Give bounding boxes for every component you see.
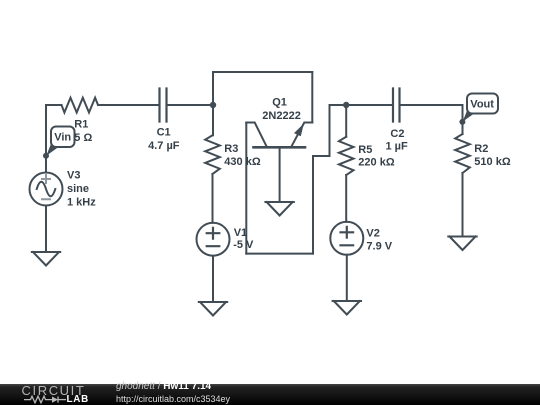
wire R2 top lead [462,105,464,134]
svg-text:V1: V1 [234,227,247,239]
wire C2 to R2 [400,104,463,106]
wire R1 to C1 [98,104,160,106]
ground below R2 [448,237,476,251]
svg-text:R1: R1 [74,119,88,131]
wire V1 to ground [212,256,214,302]
svg-text:430 kΩ: 430 kΩ [224,156,261,168]
voltage source V3 [30,173,63,206]
svg-text:-5 V: -5 V [233,239,254,251]
svg-text:C1: C1 [157,127,171,139]
capacitor C2 [393,89,400,122]
wire collector down left side of box [245,123,247,254]
svg-text:R5: R5 [358,144,372,156]
svg-text:1 µF: 1 µF [386,140,409,152]
node dot C (R5/C2 junction) [343,102,349,108]
resistor R5 [339,137,354,175]
node Vout flag [459,94,498,125]
wire C1 to node B [167,104,214,106]
svg-text:R3: R3 [224,143,238,155]
ground below V1 [199,302,227,316]
wire R5 drop [345,105,347,137]
wire R2 to ground [462,173,464,237]
svg-text:5 Ω: 5 Ω [74,132,92,144]
node dot B (C1/R3 junction) [210,102,216,108]
wire V2 to ground [346,255,348,301]
wire right side of box up [313,105,330,254]
ground at base of Q1 [265,202,293,216]
voltage source V1 [197,223,230,256]
svg-text:4.7 µF: 4.7 µF [148,140,180,152]
resistor R3 [205,135,220,174]
ground below V2 [333,301,361,315]
wire R5 to V2 [345,175,347,222]
wire left vertical from R1 to V3 [45,105,47,173]
wire R1 left lead [46,104,62,106]
sine symbol of V3 [37,182,56,197]
node Vin flag [43,127,75,159]
footer bar [0,384,540,405]
resistor R2 [455,134,470,173]
svg-text:Vin: Vin [54,132,71,144]
svg-text:220 kΩ: 220 kΩ [358,156,395,168]
svg-text:V2: V2 [366,228,379,240]
svg-text:V3: V3 [67,170,80,182]
svg-text:510 kΩ: 510 kΩ [474,156,511,168]
plus/minus of V3 [42,175,50,199]
svg-text:Vout: Vout [470,98,494,110]
svg-text:C2: C2 [390,128,404,140]
wire node B vertical to R3 [212,72,214,135]
wire base to ground [279,147,281,202]
wire right vertical to emitter [311,72,313,123]
logo resistor-diode squiggle [24,396,66,403]
svg-text:R2: R2 [474,143,488,155]
credits [116,382,211,392]
wire V3 to ground [45,206,47,253]
wire node C horizontal to C2 [330,104,394,106]
svg-text:sine: sine [67,183,89,195]
transistor Q1 [246,123,312,148]
ground below V3 [32,252,60,266]
resistor R1 [62,98,99,113]
svg-text:Q1: Q1 [272,96,287,108]
svg-text:1 kHz: 1 kHz [67,197,96,209]
wire bottom of box [246,253,313,255]
CircuitLab logo [22,386,86,396]
svg-text:7.9 V: 7.9 V [366,240,392,252]
wire R3 to V1 [212,174,214,223]
capacitor C1 [160,89,167,122]
svg-text:2N2222: 2N2222 [262,110,301,122]
voltage source V2 [330,222,363,255]
wire top of box [213,71,312,73]
